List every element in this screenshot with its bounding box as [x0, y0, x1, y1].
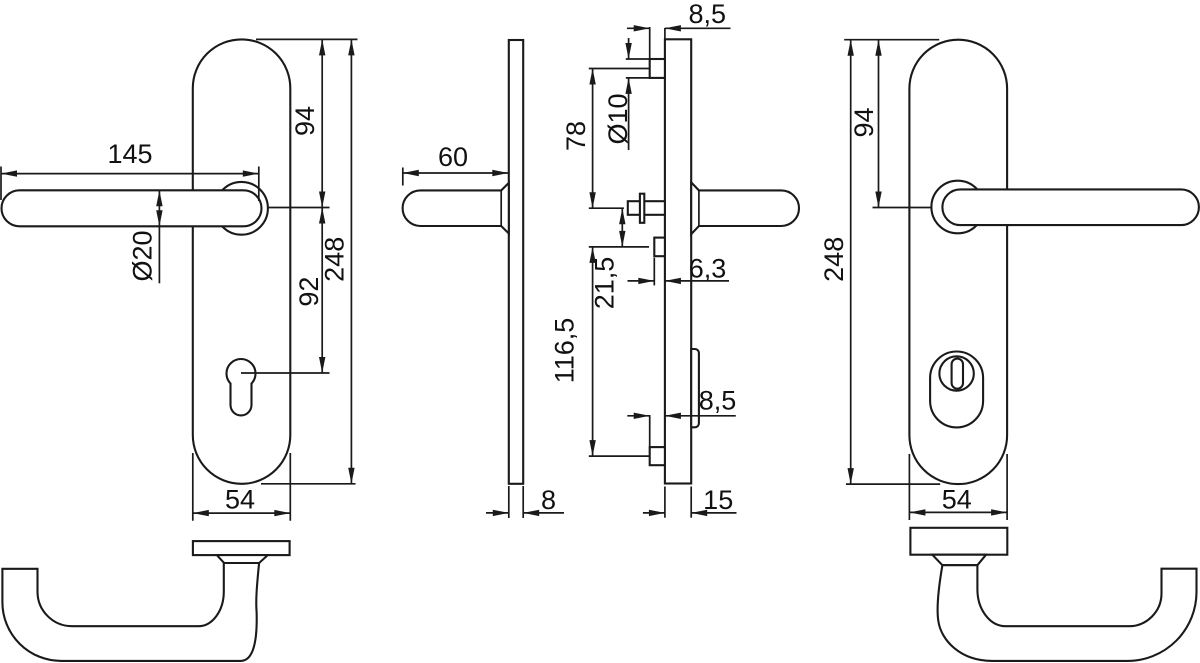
- euro profile keyhole view1: [227, 359, 256, 415]
- svg-text:94: 94: [849, 107, 879, 137]
- top screw boss view3: [650, 59, 665, 78]
- dim 8,5 bottom line left + arrow: [627, 415, 649, 417]
- flange bottom-right: [910, 528, 1007, 555]
- dim 94 line view4: [878, 40, 880, 208]
- dim 60 extension left: [402, 168, 404, 186]
- dim 6,3 line left + arrow: [628, 280, 655, 282]
- cylinder boss view3: [654, 238, 665, 257]
- handle stub neck ring view3: [698, 190, 700, 226]
- dim 92 line view1: [321, 208, 323, 374]
- dim Ø20 line: [158, 190, 160, 283]
- dim 8,5 top: plate face extension: [664, 28, 666, 39]
- oval security escutcheon view4: [930, 352, 983, 428]
- dim 248 arrows view1: [348, 39, 354, 55]
- dim 54 extensions view4: [908, 454, 910, 520]
- svg-text:78: 78: [561, 121, 591, 151]
- dim 21,5 line: [621, 208, 623, 247]
- dim 94 arrows view1: [319, 39, 325, 55]
- middle bolt shaft view3: [628, 201, 665, 215]
- dim 145 extension right: [258, 167, 260, 202]
- bottom screw boss view3: [650, 447, 665, 465]
- escutcheon side profile view3: [691, 349, 699, 427]
- backplate view4: [909, 40, 1007, 484]
- dim 8,5 top: boss face extension: [649, 27, 651, 58]
- dim 248 line view4: [850, 40, 852, 484]
- dim 15 line right + arrow: [691, 512, 736, 514]
- dim 248 arrows view4: [848, 40, 854, 56]
- svg-text:8,5: 8,5: [699, 386, 737, 416]
- dim 6,3 line right + arrow: [665, 280, 729, 282]
- dim Ø10 line lower + arrow up: [628, 78, 630, 150]
- handle axis extension view1: [268, 207, 330, 209]
- dim 8,5 top line right + arrow: [665, 27, 731, 29]
- dim 92 arrows view1: [319, 208, 325, 224]
- top extension view4: [844, 39, 939, 41]
- boss1 top extension: [626, 58, 665, 60]
- dim 60 line: [403, 172, 509, 174]
- handle tube bottom-left: [2, 563, 259, 661]
- bottom extension view1: [261, 483, 356, 485]
- svg-text:60: 60: [438, 142, 468, 172]
- dim 15 line left + arrow: [643, 512, 665, 514]
- dim 54 line view1: [193, 512, 290, 514]
- dim 116,5 arrows: [589, 247, 595, 263]
- dim 8,5 top line left + arrow: [627, 27, 650, 29]
- bottom boss axis extension: [589, 455, 650, 457]
- dim 54 arrows view1: [193, 510, 209, 516]
- backplate view2: [509, 40, 523, 484]
- svg-text:6,3: 6,3: [689, 254, 727, 284]
- dim 54 extensions view1: [192, 453, 194, 521]
- svg-text:Ø20: Ø20: [128, 230, 158, 281]
- dim 8,5 bottom: boss face extension: [649, 415, 651, 447]
- dim 54 arrows view4: [909, 509, 925, 515]
- lever handle view4: [942, 189, 1199, 225]
- handle stub view2: [403, 183, 509, 234]
- svg-text:248: 248: [819, 237, 849, 282]
- dim 145 arrow right: [243, 170, 259, 176]
- backplate view1: [193, 39, 290, 483]
- svg-text:116,5: 116,5: [550, 318, 580, 384]
- dim 145 extension left: [0, 167, 2, 201]
- middle bolt washer view3: [640, 194, 644, 223]
- svg-text:21,5: 21,5: [590, 257, 620, 310]
- dim 8 line and arrows: [486, 512, 509, 514]
- dim 60 arrows: [403, 170, 419, 176]
- dim 78 line: [592, 69, 594, 209]
- lever handle view1: [2, 190, 262, 226]
- dim 6,3 extension: [653, 258, 655, 286]
- dim 21,5 arrows: [619, 208, 625, 224]
- dim Ø20 arrow down: [156, 210, 162, 226]
- svg-text:8,5: 8,5: [689, 0, 727, 29]
- dim 8,5 bottom line right + arrow: [665, 415, 736, 417]
- dim 116,5 line: [592, 247, 594, 456]
- dim 8 extensions: [508, 486, 510, 518]
- svg-text:248: 248: [319, 237, 349, 282]
- dim 78 arrows: [589, 69, 595, 85]
- dim 145 arrow left: [1, 170, 17, 176]
- neck trapezoid bottom-right: [932, 555, 986, 566]
- keyhole axis extension line view1: [241, 372, 330, 374]
- svg-text:Ø10: Ø10: [603, 93, 633, 144]
- handle stub neck ring view2: [500, 190, 502, 226]
- svg-text:15: 15: [703, 485, 733, 515]
- dim 94 line view1: [321, 39, 323, 207]
- boss1 bottom extension: [626, 77, 665, 79]
- svg-text:54: 54: [225, 485, 255, 515]
- svg-text:94: 94: [290, 106, 320, 136]
- dim 15 extensions: [664, 487, 666, 518]
- top extension view1: [256, 38, 358, 40]
- backplate view3: [665, 39, 691, 483]
- boss1 axis extension: [589, 68, 650, 70]
- svg-text:54: 54: [942, 485, 972, 515]
- dim 248 line view1: [350, 39, 352, 483]
- dim Ø20 arrow up: [156, 190, 162, 206]
- bottom extension view4: [846, 483, 940, 485]
- cylinder circle view4: [939, 356, 973, 390]
- rose circle view4: [931, 181, 984, 234]
- dim 94 arrows view4: [875, 40, 881, 56]
- handle stub view3: [691, 182, 799, 234]
- dim 145 line: [1, 173, 259, 175]
- handle tube bottom-right: [938, 565, 1197, 661]
- handle axis extension view3: [589, 207, 624, 209]
- dim 54 line view4: [909, 511, 1007, 513]
- neck trapezoid bottom-left: [217, 555, 268, 563]
- flange bottom-left: [193, 541, 290, 555]
- cylinder boss axis extension: [589, 246, 649, 248]
- rose circle view1: [215, 182, 268, 235]
- dim Ø10 line upper + arrow down: [628, 38, 630, 59]
- handle axis extension view4: [873, 207, 932, 209]
- key slot view4: [952, 359, 963, 389]
- svg-text:145: 145: [107, 139, 152, 169]
- svg-text:8: 8: [541, 485, 556, 515]
